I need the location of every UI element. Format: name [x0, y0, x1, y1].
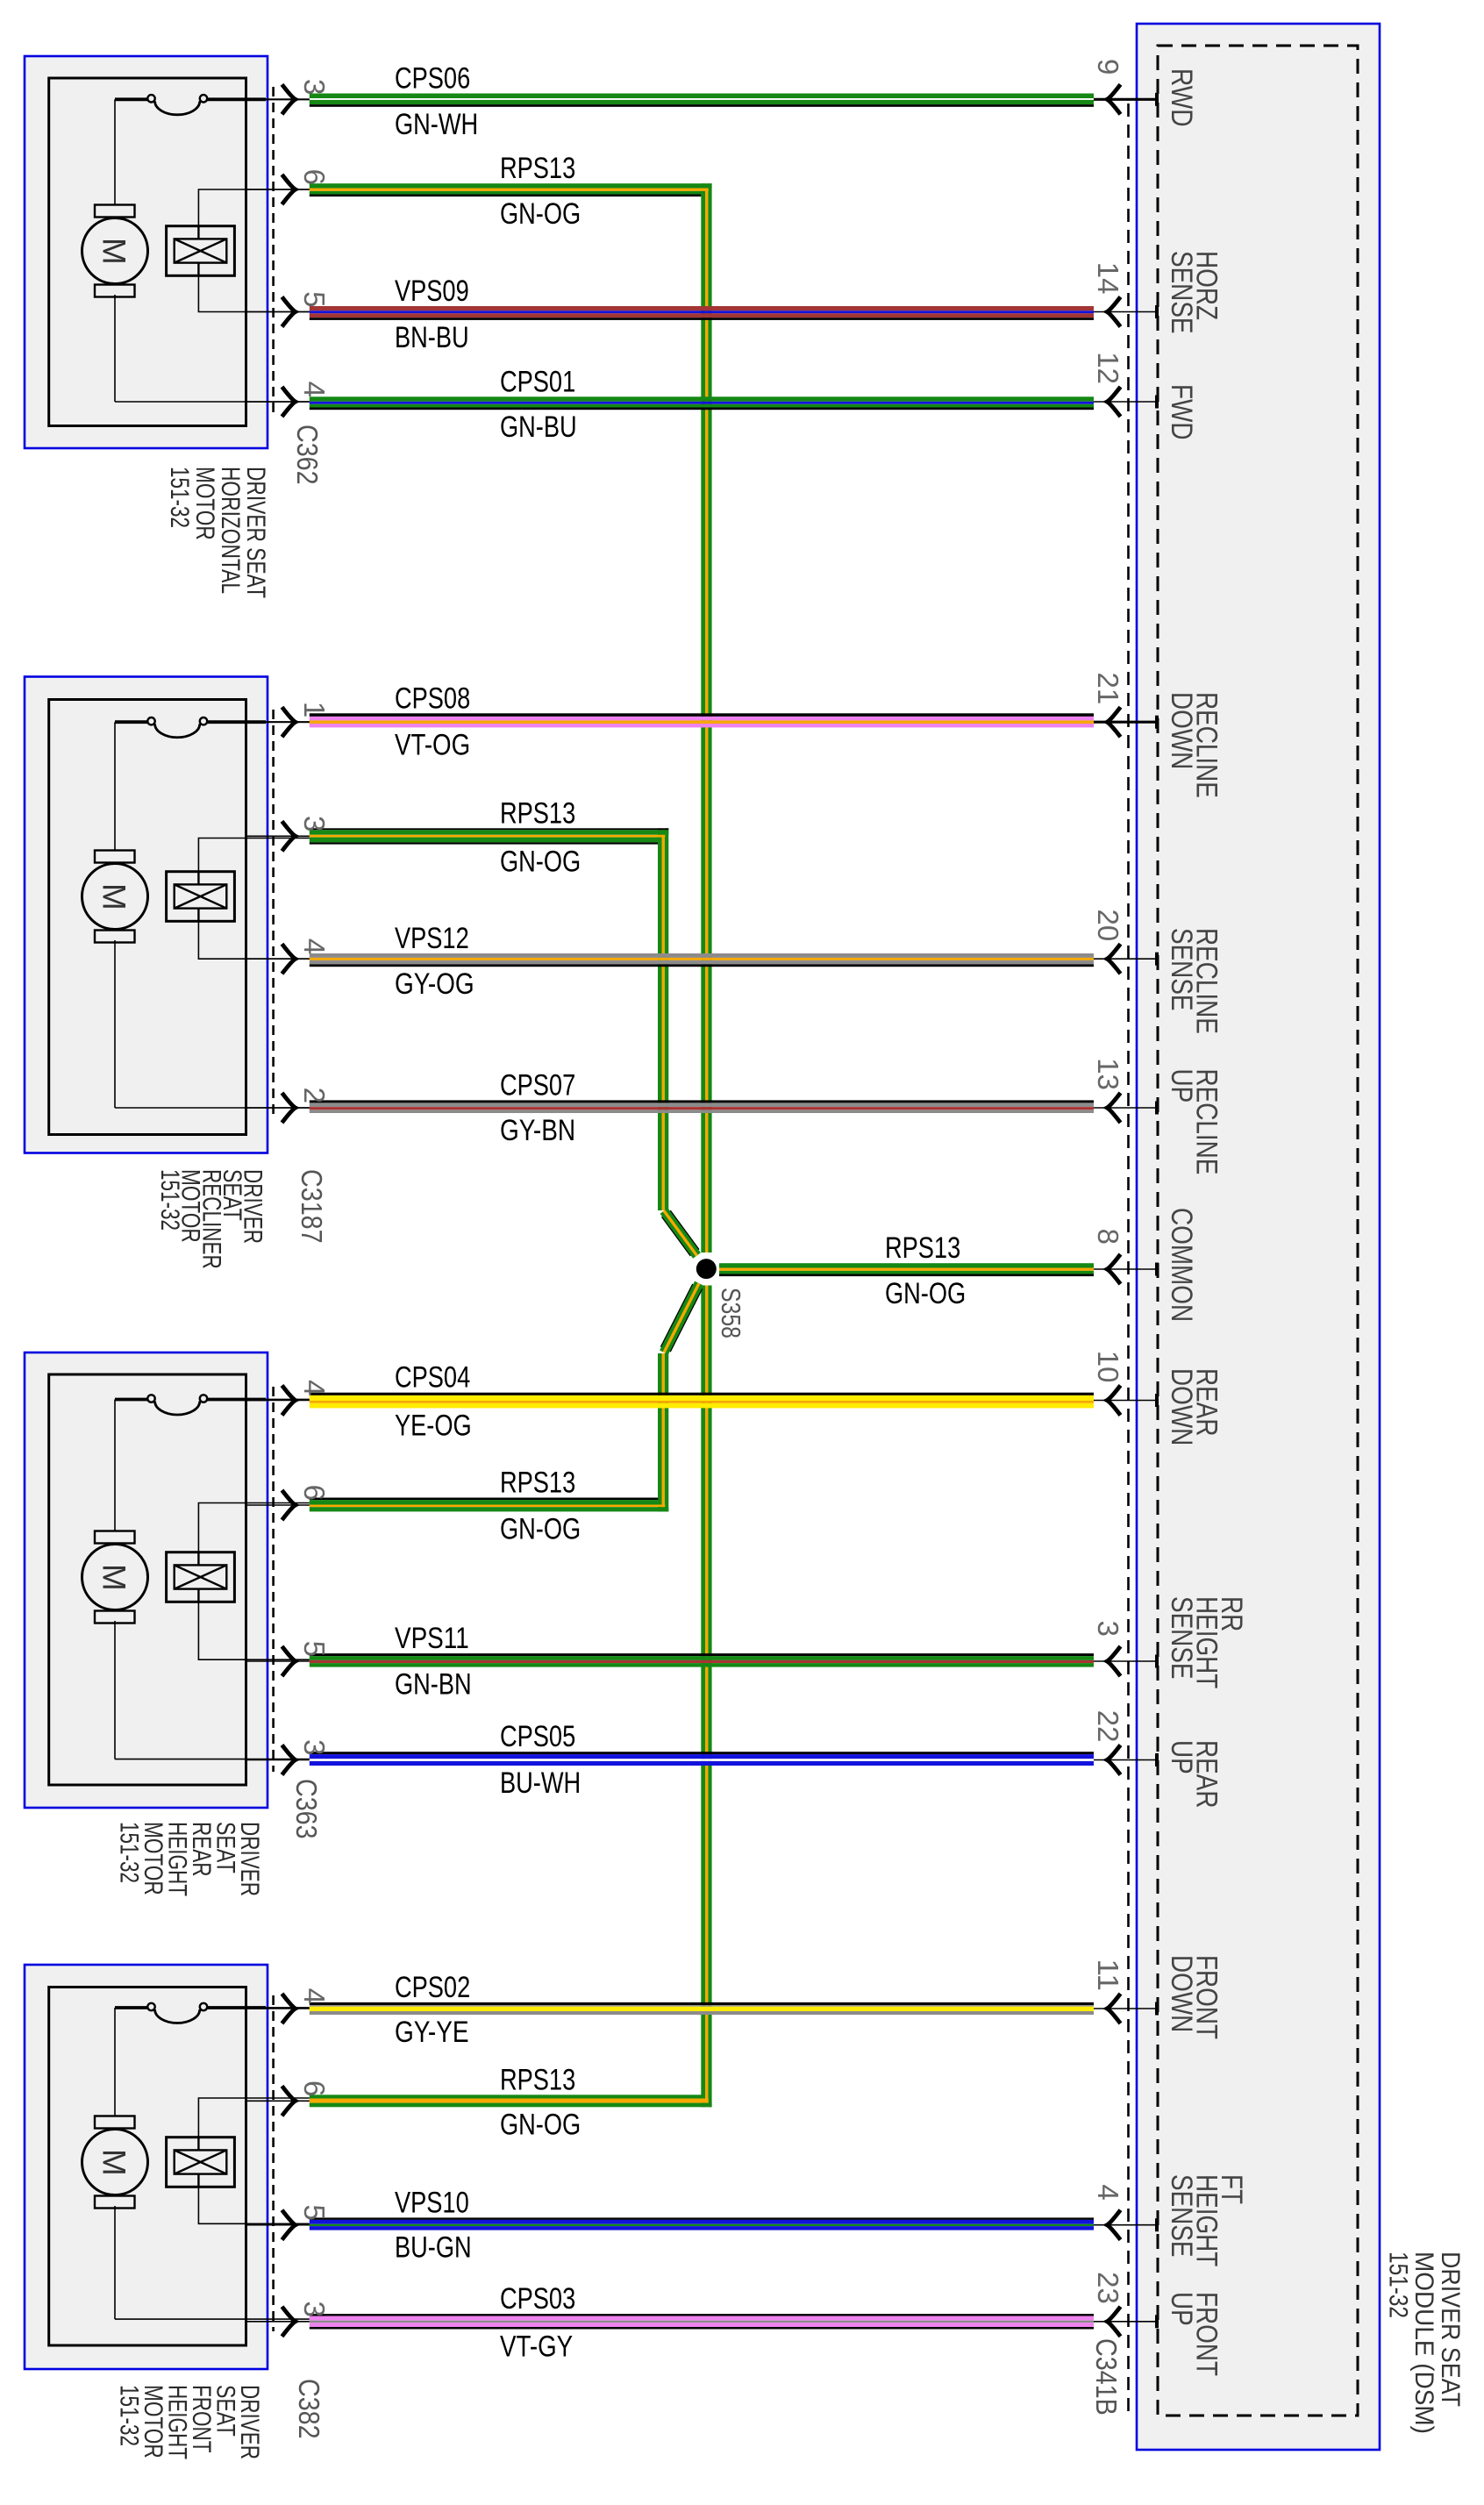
motor 4 sensor X diagonals	[175, 2150, 227, 2173]
motor 3 breaker circle right	[200, 1395, 207, 1402]
wire CPS04 YE-OG band	[310, 1393, 1094, 1395]
motor pin 2 lead line	[246, 1107, 310, 1109]
motor 2 sensor ticks	[197, 872, 199, 922]
svg-text:SENSE: SENSE	[1165, 251, 1198, 334]
motor 1 brush cap top	[95, 205, 135, 218]
svg-text:GN-BN: GN-BN	[395, 1668, 472, 1702]
motor 4 M lead down	[114, 2206, 116, 2319]
svg-text:VPS10: VPS10	[395, 2186, 469, 2219]
svg-text:M: M	[96, 1564, 132, 1591]
svg-text:COMMON: COMMON	[1165, 1208, 1198, 1322]
motor 1 sensor bottom lead	[198, 275, 309, 311]
svg-text:CPS01: CPS01	[500, 365, 575, 398]
wire RPS13 GN-OG band	[719, 1263, 1094, 1267]
motor 2 M bottom wire	[115, 1107, 310, 1109]
DSM pin 11 lead line	[1094, 2008, 1157, 2009]
motor pin 4 lead line	[246, 2008, 310, 2009]
motor pin 6 lead line	[246, 2100, 310, 2102]
motor 4 sensor outer box	[167, 2137, 235, 2187]
motor 3 M bottom wire	[115, 1759, 310, 1760]
svg-text:SENSE: SENSE	[1165, 928, 1198, 1011]
svg-text:4: 4	[298, 382, 331, 397]
wire RPS13 GN-OG band	[310, 2095, 703, 2098]
svg-text:151-32: 151-32	[115, 2385, 144, 2446]
svg-text:1: 1	[298, 702, 331, 717]
DSM pin 20 arrow	[1107, 944, 1120, 974]
motor 4 breaker circle right	[200, 2003, 207, 2010]
motor 4 breaker line right (pin lead)	[207, 2006, 266, 2009]
motor 3 M lead down	[114, 1621, 116, 1759]
svg-text:6: 6	[298, 1485, 331, 1501]
motor pin 5 arrow	[282, 2210, 296, 2240]
svg-text:6: 6	[298, 2080, 331, 2096]
motor 1 breaker line left	[115, 97, 148, 101]
motor 3 sensor inner box	[175, 1565, 227, 1588]
trunk wire RPS13 vertical right lower	[701, 1286, 705, 2108]
svg-text:DRIVER SEAT: DRIVER SEAT	[1436, 2252, 1465, 2407]
motor 4 sensor ticks	[197, 2137, 199, 2187]
motor 2 breaker arc	[155, 724, 200, 738]
motor pin 6 arrow	[282, 2086, 296, 2116]
motor 4 inner box	[49, 1988, 246, 2346]
svg-text:5: 5	[298, 291, 331, 307]
motor pin 6 arrow	[282, 175, 296, 204]
motor 1 blue outline box	[25, 56, 268, 448]
wire RPS13 GN-OG band	[310, 828, 669, 830]
motor 3 sensor outer box	[167, 1552, 235, 1602]
DSM pin 13 lead line	[1094, 1107, 1157, 1109]
DSM pin 21 arrow	[1107, 707, 1120, 737]
motor 2 breaker line left	[115, 720, 148, 724]
trunk wire RPS13 vertical right upper	[701, 183, 705, 1252]
motor 2 breaker circle left	[147, 717, 154, 724]
motor 1 sensor top lead	[198, 189, 309, 226]
motor pin 4 arrow	[282, 387, 296, 417]
motor 3 brush cap bottom	[95, 1611, 135, 1624]
motor pin 4 lead line	[246, 1400, 310, 1402]
DSM pin 10 arrow	[1107, 1386, 1120, 1416]
svg-text:3: 3	[1092, 1621, 1124, 1637]
motor 2 sensor outer box	[167, 872, 235, 922]
svg-text:14: 14	[1092, 262, 1124, 295]
svg-text:YE-OG: YE-OG	[395, 1409, 472, 1442]
svg-text:RPS13: RPS13	[500, 796, 575, 830]
svg-text:UP: UP	[1165, 2292, 1198, 2326]
motor 2 breaker line right (pin lead)	[207, 720, 266, 724]
trunk wire RPS13 vertical left lower	[658, 1353, 662, 1511]
svg-text:GN-OG: GN-OG	[500, 197, 581, 231]
svg-text:DOWN: DOWN	[1165, 1368, 1198, 1445]
wire CPS07 GY-BN band	[310, 1100, 1094, 1103]
motor 3 breaker line right (pin lead)	[207, 1398, 266, 1402]
motor pin 3 lead line	[246, 1759, 310, 1761]
svg-text:GN-OG: GN-OG	[500, 2108, 581, 2141]
motor 3 breaker line left	[115, 1398, 148, 1402]
motor 1 breaker circle left	[147, 95, 154, 102]
motor 1 breaker line right (pin lead)	[207, 97, 266, 101]
wire RPS13 GN-OG band	[310, 183, 712, 188]
svg-text:4: 4	[298, 1988, 331, 2004]
svg-text:BU-GN: BU-GN	[395, 2231, 472, 2265]
wire CPS03 VT-GY band	[310, 2314, 1094, 2316]
svg-text:UP: UP	[1165, 1740, 1198, 1774]
motor 1 M lead up	[114, 99, 116, 207]
wire VPS11 GN-BN band	[310, 1653, 1094, 1656]
svg-text:21: 21	[1092, 673, 1124, 705]
motor 4 M lead up	[114, 2008, 116, 2118]
DSM pin 22 arrow	[1107, 1745, 1120, 1775]
DSM pin 10 lead line	[1094, 1400, 1157, 1402]
DSM pin 4 terminal tick	[1155, 2218, 1159, 2231]
DSM pin 11 terminal tick	[1155, 2002, 1159, 2016]
svg-text:3: 3	[298, 2301, 331, 2316]
svg-text:M: M	[96, 883, 132, 910]
motor 1 M bottom wire	[115, 401, 310, 403]
motor 1 breaker circle right	[200, 95, 207, 102]
module DSM blue box	[1137, 24, 1380, 2450]
svg-text:GN-OG: GN-OG	[500, 846, 581, 879]
svg-text:VPS09: VPS09	[395, 275, 469, 308]
svg-text:C363: C363	[290, 1779, 323, 1839]
trunk wire RPS13 vertical left upper	[658, 828, 662, 1210]
svg-text:3: 3	[298, 79, 331, 95]
connector C341B dashed line	[1127, 103, 1130, 2416]
motor 2 sensor X diagonals	[175, 884, 227, 908]
motor 3 M circle	[82, 1545, 148, 1610]
motor 2 blue outline box	[25, 677, 268, 1153]
motor pin 1 lead line	[246, 721, 310, 723]
wire CPS08 VT-OG band	[310, 713, 1094, 717]
svg-text:BU-WH: BU-WH	[500, 1766, 581, 1800]
motor pin 6 lead line	[246, 189, 310, 190]
motor pin 3 lead line	[246, 98, 310, 100]
svg-text:23: 23	[1092, 2272, 1124, 2304]
svg-text:VT-GY: VT-GY	[500, 2330, 573, 2364]
svg-text:FWD: FWD	[1165, 384, 1198, 440]
svg-text:3: 3	[298, 816, 331, 831]
DSM pin 14 arrow	[1107, 297, 1120, 327]
svg-text:RPS13: RPS13	[500, 152, 575, 185]
wire CPS06 GN-WH band	[310, 94, 1094, 99]
svg-text:VPS12: VPS12	[395, 922, 469, 955]
DSM pin 10 terminal tick	[1155, 1394, 1159, 1407]
wire VPS12 GY-OG band	[310, 953, 1094, 958]
svg-text:RPS13: RPS13	[500, 2063, 575, 2096]
motor pin 3 arrow	[282, 84, 296, 114]
motor pin 5 lead line	[246, 311, 310, 313]
svg-text:UP: UP	[1165, 1069, 1198, 1103]
svg-text:VPS11: VPS11	[395, 1622, 469, 1655]
svg-text:S358: S358	[716, 1288, 746, 1338]
svg-text:C3187: C3187	[296, 1169, 328, 1244]
motor 2 sensor inner box	[175, 884, 227, 908]
motor 1 brush cap bottom	[95, 285, 135, 297]
svg-text:4: 4	[298, 1380, 331, 1395]
svg-text:C382: C382	[293, 2379, 325, 2439]
svg-text:RWD: RWD	[1165, 68, 1198, 127]
svg-text:M: M	[96, 2149, 132, 2176]
svg-text:VT-OG: VT-OG	[395, 728, 470, 761]
motor 1 sensor inner box	[175, 239, 227, 262]
DSM pin 20 lead line	[1094, 958, 1157, 960]
motor 4 brush cap bottom	[95, 2196, 135, 2209]
svg-text:GN-OG: GN-OG	[500, 1512, 581, 1545]
svg-text:3: 3	[298, 1739, 331, 1755]
svg-text:8: 8	[1092, 1229, 1124, 1245]
svg-text:GN-OG: GN-OG	[885, 1277, 966, 1310]
motor 2 breaker circle right	[200, 717, 207, 724]
wire RPS13 GN-OG band	[310, 1498, 659, 1501]
svg-text:12: 12	[1092, 352, 1124, 384]
motor 3 inner box	[49, 1374, 246, 1785]
motor pin 4 arrow	[282, 1994, 296, 2023]
DSM pin 8 lead line	[1094, 1268, 1157, 1270]
motor 4 brush cap top	[95, 2116, 135, 2129]
motor 4 sensor bottom lead	[198, 2187, 309, 2223]
motor 1 sensor ticks	[197, 226, 199, 276]
motor 3 sensor bottom lead	[198, 1602, 309, 1659]
DSM pin 4 lead line	[1094, 2224, 1157, 2226]
DSM pin 9 lead line	[1094, 98, 1157, 101]
motor pin 6 lead line	[246, 1504, 310, 1506]
DSM pin 23 arrow	[1107, 2307, 1120, 2337]
splice S358 dot	[696, 1259, 717, 1279]
DSM pin 3 lead line	[1094, 1660, 1157, 1662]
motor 2 sensor bottom lead	[198, 921, 309, 959]
motor 3 breaker circle left	[147, 1395, 154, 1402]
DSM pin 21 lead line	[1094, 721, 1157, 724]
motor pin 1 arrow	[282, 707, 296, 737]
svg-text:151-32: 151-32	[165, 467, 194, 528]
motor 3 brush cap top	[95, 1531, 135, 1544]
motor 1 M circle	[82, 218, 148, 284]
svg-text:RPS13: RPS13	[885, 1231, 960, 1265]
motor pin 5 arrow	[282, 297, 296, 327]
splice diagonal wires RPS13	[666, 1214, 695, 1253]
motor 1 connector dashed line	[272, 87, 275, 414]
svg-text:CPS03: CPS03	[500, 2282, 575, 2316]
motor 2 brush cap top	[95, 851, 135, 863]
DSM pin 3 arrow	[1107, 1646, 1120, 1676]
motor 2 brush cap bottom	[95, 931, 135, 943]
svg-text:10: 10	[1092, 1351, 1124, 1383]
motor 4 breaker arc	[155, 2009, 200, 2023]
wire CPS02 GY-YE band	[310, 2002, 1094, 2005]
motor pin 4 arrow	[282, 1386, 296, 1416]
DSM pin 9 arrow	[1107, 84, 1120, 114]
svg-text:151-32: 151-32	[1384, 2252, 1413, 2318]
svg-text:GY-YE: GY-YE	[395, 2016, 469, 2049]
DSM pin 12 terminal tick	[1155, 396, 1159, 409]
svg-text:CPS08: CPS08	[395, 682, 470, 715]
motor pin 5 lead line	[246, 2224, 310, 2226]
motor pin 3 lead line	[246, 2321, 310, 2323]
svg-text:M: M	[96, 238, 132, 265]
motor 4 sensor inner box	[175, 2150, 227, 2173]
motor 2 M circle	[82, 864, 148, 930]
motor pin 4 lead line	[246, 958, 310, 960]
motor pin 5 arrow	[282, 1646, 296, 1676]
svg-text:CPS06: CPS06	[395, 62, 470, 96]
motor 2 M lead up	[114, 722, 116, 853]
svg-text:CPS04: CPS04	[395, 1361, 470, 1395]
motor 3 blue outline box	[25, 1352, 268, 1808]
svg-text:GY-OG: GY-OG	[395, 967, 474, 1001]
svg-text:GY-BN: GY-BN	[500, 1114, 575, 1147]
svg-text:CPS02: CPS02	[395, 1971, 470, 2004]
motor 2 inner box	[49, 700, 246, 1135]
DSM pin 21 terminal tick	[1155, 716, 1159, 729]
DSM pin 8 terminal tick	[1155, 1263, 1159, 1276]
motor pin 4 arrow	[282, 944, 296, 974]
motor 3 sensor X diagonals	[175, 1565, 227, 1588]
svg-text:4: 4	[298, 938, 331, 954]
DSM pin 14 lead line	[1094, 311, 1157, 313]
DSM pin 14 terminal tick	[1155, 305, 1159, 318]
DSM pin 20 terminal tick	[1155, 953, 1159, 966]
svg-text:13: 13	[1092, 1058, 1124, 1090]
DSM pin 23 terminal tick	[1155, 2315, 1159, 2328]
motor 1 breaker arc	[155, 101, 200, 115]
motor pin 5 lead line	[246, 1660, 310, 1662]
motor 4 M bottom wire	[115, 2318, 310, 2320]
svg-text:DOWN: DOWN	[1165, 1955, 1198, 2032]
svg-text:2: 2	[298, 1088, 331, 1103]
motor 1 sensor outer box	[167, 226, 235, 276]
svg-text:DOWN: DOWN	[1165, 692, 1198, 769]
svg-text:6: 6	[298, 169, 331, 185]
motor 1 M lead down	[114, 295, 116, 402]
motor 4 breaker circle left	[147, 2003, 154, 2010]
motor 4 M circle	[82, 2130, 148, 2195]
wire CPS05 BU-WH band	[310, 1752, 1094, 1754]
svg-text:22: 22	[1092, 1710, 1124, 1743]
motor pin 6 arrow	[282, 1490, 296, 1520]
svg-text:4: 4	[1092, 2184, 1124, 2200]
motor 4 connector dashed line	[272, 1995, 275, 2331]
svg-text:9: 9	[1092, 59, 1124, 75]
motor 2 M lead down	[114, 940, 116, 1108]
motor 3 breaker arc	[155, 1402, 200, 1416]
motor pin 2 arrow	[282, 1093, 296, 1123]
motor 1 inner box	[49, 78, 246, 426]
svg-text:CPS05: CPS05	[500, 1720, 575, 1753]
motor pin 4 lead line	[246, 401, 310, 403]
svg-text:151-32: 151-32	[115, 1822, 144, 1883]
svg-text:20: 20	[1092, 910, 1124, 942]
wire CPS01 GN-BU band	[310, 396, 1094, 402]
svg-text:5: 5	[298, 1641, 331, 1657]
DSM pin 11 arrow	[1107, 1994, 1120, 2023]
motor 4 blue outline box	[25, 1965, 268, 2369]
svg-text:MODULE (DSM): MODULE (DSM)	[1409, 2252, 1438, 2434]
motor pin 3 lead line	[246, 835, 310, 837]
svg-text:5: 5	[298, 2204, 331, 2220]
motor pin 3 arrow	[282, 2307, 296, 2337]
DSM pin 4 arrow	[1107, 2210, 1120, 2240]
DSM pin 13 terminal tick	[1155, 1102, 1159, 1115]
DSM pin 9 terminal tick	[1155, 93, 1159, 106]
svg-text:GN-WH: GN-WH	[395, 108, 478, 141]
svg-text:CPS07: CPS07	[500, 1068, 575, 1102]
motor 3 sensor top lead	[198, 1503, 309, 1552]
DSM pin 12 lead line	[1094, 401, 1157, 403]
svg-text:BN-BU: BN-BU	[395, 321, 469, 354]
motor 2 connector dashed line	[272, 710, 275, 1120]
motor pin 3 arrow	[282, 1745, 296, 1775]
DSM pin 13 arrow	[1107, 1093, 1120, 1123]
motor 3 sensor ticks	[197, 1552, 199, 1602]
svg-text:C362: C362	[291, 425, 324, 485]
motor 4 sensor top lead	[198, 2098, 309, 2137]
motor 4 breaker line left	[115, 2006, 148, 2009]
svg-text:SENSE: SENSE	[1165, 1596, 1198, 1680]
motor 2 sensor top lead	[198, 839, 309, 872]
motor 1 sensor X diagonals	[175, 239, 227, 262]
DSM pin 12 arrow	[1107, 387, 1120, 417]
DSM pin 3 terminal tick	[1155, 1655, 1159, 1668]
svg-text:SENSE: SENSE	[1165, 2174, 1198, 2258]
svg-text:RPS13: RPS13	[500, 1467, 575, 1500]
DSM pin 23 lead line	[1094, 2321, 1157, 2323]
motor 3 M lead up	[114, 1400, 116, 1534]
svg-text:C341B: C341B	[1090, 2338, 1123, 2416]
wire VPS10 BU-GN band	[310, 2217, 1094, 2220]
DSM pin 8 arrow	[1107, 1254, 1120, 1284]
motor 3 connector dashed line	[272, 1387, 275, 1772]
svg-text:GN-BU: GN-BU	[500, 410, 577, 444]
svg-text:151-32: 151-32	[155, 1169, 184, 1231]
DSM pin 22 lead line	[1094, 1759, 1157, 1761]
DSM pin 22 terminal tick	[1155, 1753, 1159, 1766]
motor pin 3 arrow	[282, 821, 296, 851]
svg-text:11: 11	[1092, 1959, 1124, 1991]
DSM internal dashed boundary	[1158, 46, 1358, 2416]
wire VPS09 BN-BU band	[310, 306, 1094, 310]
